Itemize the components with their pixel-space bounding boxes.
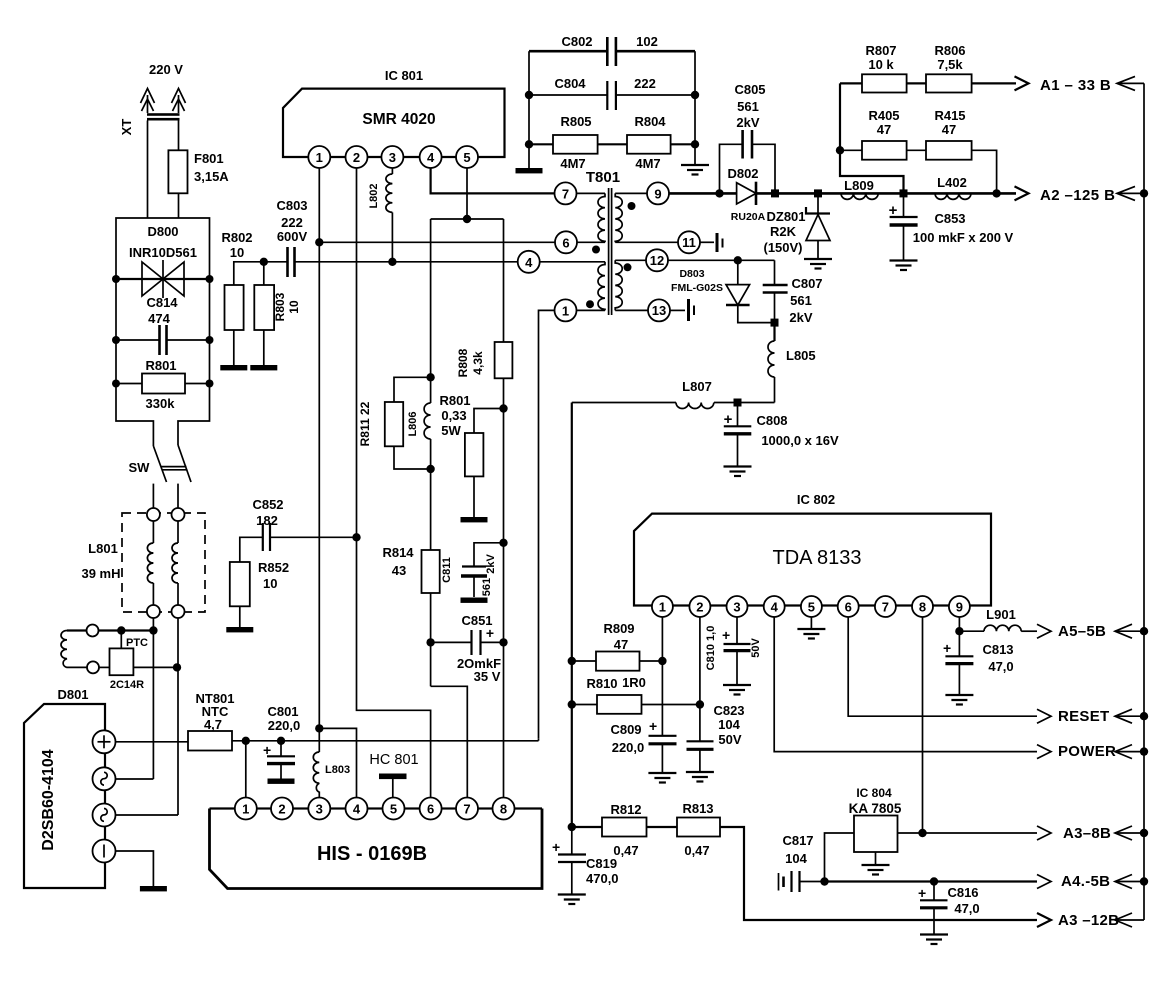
arrow output A4-5B [1037, 875, 1051, 889]
arrow return RESET [1115, 715, 1144, 717]
IC802 pin 2 [689, 596, 710, 617]
svg-text:C817: C817 [782, 833, 813, 848]
wire L801 left down [152, 618, 154, 631]
wire left mains down to D800 [147, 121, 149, 219]
svg-text:C809: C809 [610, 722, 641, 737]
wire snubber left leg [528, 51, 530, 168]
svg-text:R809: R809 [603, 621, 634, 636]
svg-text:7: 7 [882, 600, 889, 615]
svg-text:SW: SW [129, 460, 151, 475]
wire minus to ground [116, 851, 154, 886]
arrow return A1 [1117, 82, 1144, 84]
wire R813 to A3-12B [720, 827, 1037, 920]
svg-text:POWER: POWER [1058, 743, 1116, 760]
svg-text:47: 47 [614, 637, 628, 652]
posistor PTC 2C14R [120, 631, 122, 649]
arrow output A5-5B [1037, 624, 1051, 638]
svg-text:102: 102 [636, 34, 658, 49]
svg-text:L809: L809 [844, 178, 874, 193]
svg-text:+: + [552, 839, 560, 855]
T801 secondary lower winding [615, 259, 646, 261]
svg-text:C804: C804 [554, 76, 586, 91]
svg-text:8: 8 [919, 600, 926, 615]
svg-text:R2K: R2K [770, 224, 797, 239]
svg-text:182: 182 [256, 513, 278, 528]
T801 pin 1 [555, 299, 577, 321]
svg-text:SMR 4020: SMR 4020 [362, 111, 435, 128]
svg-text:R807: R807 [865, 43, 896, 58]
svg-text:C811: C811 [441, 557, 453, 583]
T801 pin 9 [647, 182, 669, 204]
svg-text:39 mH: 39 mH [81, 566, 120, 581]
L801 terminals [147, 508, 160, 521]
svg-text:600V: 600V [277, 229, 308, 244]
svg-text:2: 2 [696, 600, 703, 615]
wire IC801 pin1 down [318, 168, 320, 752]
svg-text:C814: C814 [146, 295, 178, 310]
svg-text:C801: C801 [267, 704, 298, 719]
arrow return A3-8B [1115, 832, 1144, 834]
svg-text:IC 802: IC 802 [797, 492, 835, 507]
resistor R852 10 [230, 562, 250, 606]
svg-text:C808: C808 [756, 413, 787, 428]
svg-text:10: 10 [230, 245, 244, 260]
wire IC802 pin9 down [958, 617, 960, 631]
IC802 pin 8 [912, 596, 933, 617]
svg-text:9: 9 [956, 600, 963, 615]
IC802 pin 9 [949, 596, 970, 617]
capacitor C811 561 2kV [474, 543, 504, 566]
svg-text:D800: D800 [147, 224, 178, 239]
svg-text:+: + [943, 640, 951, 656]
svg-text:3,15A: 3,15A [194, 169, 229, 184]
ground bridge minus [140, 886, 167, 891]
svg-text:10: 10 [287, 300, 301, 314]
svg-text:A4.-5B: A4.-5B [1061, 873, 1110, 890]
svg-text:1: 1 [242, 802, 249, 817]
svg-text:R814: R814 [382, 545, 414, 560]
svg-text:35 V: 35 V [474, 669, 501, 684]
svg-text:0,47: 0,47 [613, 843, 638, 858]
wire pin11 to ground [700, 241, 714, 243]
svg-text:DZ801: DZ801 [766, 209, 805, 224]
svg-text:4,7: 4,7 [204, 717, 222, 732]
wire degauss top [67, 629, 87, 631]
wire down to R814 [430, 469, 432, 550]
hybrid IC HIS-0169B body [210, 809, 543, 889]
svg-text:R802: R802 [221, 230, 252, 245]
svg-text:7,5k: 7,5k [937, 57, 963, 72]
svg-text:10 k: 10 k [868, 57, 894, 72]
ground R802 [220, 365, 247, 370]
svg-text:INR10D561: INR10D561 [129, 245, 197, 260]
svg-text:4M7: 4M7 [635, 156, 660, 171]
svg-text:7: 7 [463, 802, 470, 817]
capacitor C853 100mkFx200V [900, 189, 908, 197]
T801 primary lower winding [540, 261, 605, 263]
IC801 pin 4 [420, 146, 442, 168]
svg-text:4: 4 [353, 802, 361, 817]
svg-text:R803: R803 [273, 292, 287, 321]
svg-text:222: 222 [634, 76, 656, 91]
HIS pin 4 [346, 798, 368, 820]
D801 terminal ac2 [93, 804, 116, 827]
svg-text:C852: C852 [252, 497, 283, 512]
svg-text:50V: 50V [750, 638, 762, 658]
svg-text:104: 104 [785, 851, 807, 866]
svg-text:1000,0 x 16V: 1000,0 x 16V [761, 433, 839, 448]
IC802 pin 7 [875, 596, 896, 617]
svg-text:R801: R801 [145, 358, 176, 373]
svg-text:L402: L402 [937, 175, 967, 190]
svg-text:12: 12 [650, 253, 664, 268]
wire jog to HIS pin4 [319, 728, 356, 797]
svg-text:470,0: 470,0 [586, 871, 619, 886]
svg-text:6: 6 [845, 600, 852, 615]
svg-text:47: 47 [942, 122, 956, 137]
ground snubber left [516, 168, 543, 173]
svg-text:R405: R405 [868, 108, 899, 123]
svg-text:A2 –125 B: A2 –125 B [1040, 187, 1115, 204]
wire HIS pin1 drop [245, 741, 247, 797]
svg-text:2kV: 2kV [736, 115, 759, 130]
svg-text:330k: 330k [146, 396, 176, 411]
arrow return A3-12B [1115, 919, 1144, 921]
wire rail right leg down to R808 [503, 219, 505, 342]
wire PTC to right line [133, 666, 178, 668]
svg-text:L803: L803 [325, 764, 350, 776]
wire IC802 pin8 down [922, 617, 924, 833]
wire feedback bus right [1143, 83, 1145, 920]
svg-text:D801: D801 [57, 687, 88, 702]
svg-text:IC 804: IC 804 [856, 786, 892, 800]
svg-text:C816: C816 [947, 885, 978, 900]
svg-text:6: 6 [562, 235, 569, 250]
IC802 pin 1 [652, 596, 673, 617]
svg-text:2: 2 [353, 150, 360, 165]
svg-text:L801: L801 [88, 541, 118, 556]
varistor D800 symbol [116, 278, 210, 280]
svg-text:0,33: 0,33 [441, 408, 466, 423]
svg-text:561: 561 [481, 578, 493, 596]
svg-text:R813: R813 [682, 801, 713, 816]
svg-text:104: 104 [718, 717, 740, 732]
T801 pin 7 [555, 182, 577, 204]
wire L801 right down to bridge [177, 618, 179, 815]
wire IC801 pin4 to T801 pin7 [431, 168, 555, 193]
svg-text:1R0: 1R0 [622, 675, 646, 690]
svg-text:4: 4 [525, 255, 533, 270]
arrow return POWER [1115, 751, 1144, 753]
varistor block D800 outline [116, 218, 210, 446]
svg-text:C807: C807 [791, 276, 822, 291]
svg-text:A5–5B: A5–5B [1058, 623, 1106, 640]
svg-text:KA 7805: KA 7805 [849, 801, 902, 816]
svg-text:5: 5 [463, 150, 470, 165]
svg-text:HC 801: HC 801 [369, 752, 418, 768]
svg-text:(150V): (150V) [763, 240, 802, 255]
svg-text:FML-G02S: FML-G02S [671, 282, 723, 294]
wire A4 line [825, 880, 1038, 882]
svg-text:4,3k: 4,3k [471, 351, 485, 375]
svg-text:47,0: 47,0 [988, 659, 1013, 674]
svg-text:R810: R810 [586, 676, 617, 691]
D801 terminal minus [93, 840, 116, 863]
svg-text:474: 474 [148, 311, 170, 326]
L801 winding left [152, 521, 154, 543]
T801 phase dots [628, 202, 636, 210]
svg-text:4M7: 4M7 [560, 156, 585, 171]
wire main +B line [669, 192, 737, 195]
wire right mains down [178, 121, 180, 219]
svg-text:C853: C853 [934, 211, 965, 226]
svg-text:3: 3 [389, 150, 396, 165]
IC801 pin 5 [456, 146, 478, 168]
svg-text:F801: F801 [194, 151, 224, 166]
svg-text:R811 22: R811 22 [358, 401, 372, 446]
svg-text:D803: D803 [679, 268, 704, 280]
svg-text:220 V: 220 V [149, 62, 183, 77]
svg-text:RESET: RESET [1058, 708, 1110, 725]
svg-text:47,0: 47,0 [954, 901, 979, 916]
svg-text:L807: L807 [682, 379, 712, 394]
arrow return A4-5B [1115, 881, 1144, 883]
svg-text:6: 6 [427, 802, 434, 817]
arrow output A2 [1015, 186, 1029, 200]
svg-text:L806: L806 [407, 411, 419, 436]
svg-text:T801: T801 [586, 169, 620, 186]
svg-text:7: 7 [562, 186, 569, 201]
svg-text:3: 3 [733, 600, 740, 615]
filter L801 39mH dashed box [122, 513, 205, 612]
svg-text:R812: R812 [610, 802, 641, 817]
HIS pin 2 [271, 798, 293, 820]
svg-text:+: + [918, 885, 926, 901]
wire pin13 to ground [670, 309, 685, 311]
wire to HIS pin7 [431, 686, 468, 797]
svg-text:A1 – 33 B: A1 – 33 B [1040, 77, 1111, 94]
IC801 pin 3 [381, 146, 403, 168]
svg-text:C813: C813 [982, 642, 1013, 657]
svg-text:43: 43 [392, 563, 406, 578]
svg-text:2: 2 [278, 802, 285, 817]
svg-text:R806: R806 [934, 43, 965, 58]
T801 pin 6 [555, 231, 577, 253]
svg-text:C802: C802 [561, 34, 592, 49]
wire IC802 pin4 to POWER [774, 617, 1037, 752]
IC802 pin 6 [838, 596, 859, 617]
wire feedback left leg [840, 83, 904, 193]
arrow output A1 [1015, 76, 1029, 90]
HIS pin 3 [308, 798, 330, 820]
D801 terminal ac1 [93, 767, 116, 790]
resistor R811 22 and inductor L806 parallel [426, 373, 434, 381]
arrow output A3-8B [1037, 826, 1051, 840]
svg-text:50V: 50V [718, 732, 741, 747]
svg-text:5: 5 [808, 600, 815, 615]
svg-text:R852: R852 [258, 560, 289, 575]
svg-text:A3–8B: A3–8B [1063, 825, 1111, 842]
svg-text:5W: 5W [441, 423, 461, 438]
op-amp IC801 SMR 4020 body [283, 89, 505, 157]
svg-text:1: 1 [562, 303, 569, 318]
IC802 pin 5 [801, 596, 822, 617]
svg-text:1: 1 [316, 150, 323, 165]
svg-text:RU20A: RU20A [731, 211, 766, 223]
svg-text:L901: L901 [986, 607, 1016, 622]
wire IC804 output to A3-8B [898, 832, 1038, 834]
svg-text:4: 4 [427, 150, 435, 165]
svg-text:L802: L802 [368, 183, 380, 208]
T801 secondary upper winding [615, 192, 647, 194]
svg-text:4: 4 [771, 600, 779, 615]
degauss coil [61, 631, 67, 668]
svg-text:0,47: 0,47 [684, 843, 709, 858]
arrow output A3-12B [1037, 913, 1051, 927]
svg-text:R415: R415 [934, 108, 965, 123]
svg-text:IC 801: IC 801 [385, 68, 423, 83]
IC801 pin 2 [346, 146, 368, 168]
svg-text:R801: R801 [439, 393, 470, 408]
wire IC802 pin5 ground [810, 617, 812, 628]
svg-text:HIS - 0169B: HIS - 0169B [317, 843, 427, 865]
wire T801 pin12 net [668, 259, 775, 261]
arrow output RESET [1037, 709, 1051, 723]
svg-text:220,0: 220,0 [612, 740, 645, 755]
wire IC804 input left [825, 833, 855, 882]
fuse F801 3,15A [168, 150, 187, 193]
D801 terminal + [93, 730, 116, 753]
svg-text:2C14R: 2C14R [110, 679, 144, 691]
wire IC801 pin2 down jog to HIS pin6 [357, 168, 431, 797]
svg-text:D802: D802 [727, 166, 758, 181]
svg-text:13: 13 [652, 303, 666, 318]
connector XT double bar [147, 113, 180, 116]
HIS pin 8 [493, 798, 515, 820]
wire rail left leg down to R811 [430, 219, 432, 377]
svg-text:561: 561 [790, 293, 812, 308]
svg-text:TDA 8133: TDA 8133 [773, 547, 862, 569]
svg-text:+: + [722, 627, 730, 643]
resistor R803 10 [263, 262, 265, 285]
svg-text:C823: C823 [713, 703, 744, 718]
wire IC802 pin1 down [661, 617, 663, 736]
svg-text:5: 5 [390, 802, 397, 817]
svg-text:C819: C819 [586, 856, 617, 871]
wire pin1 to T801 pin6 [319, 241, 555, 243]
svg-text:D2SB60-4104: D2SB60-4104 [40, 749, 57, 851]
ground R815 [461, 517, 488, 522]
T801 pin 11 [678, 231, 700, 253]
wire snubber right leg [694, 51, 696, 164]
arrow return A2 [1117, 192, 1144, 194]
HIS pin 7 [456, 798, 478, 820]
HIS pin 1 [235, 798, 257, 820]
arrow return A5 [1115, 630, 1144, 632]
wire L807 bus down left [571, 403, 573, 828]
HIS pin 5 [383, 798, 405, 820]
IC802 pin 4 [764, 596, 785, 617]
svg-text:A3 –12B: A3 –12B [1058, 912, 1119, 929]
wire DC bus to C801 and T801 [232, 740, 539, 742]
svg-text:+: + [486, 625, 494, 641]
svg-text:+: + [649, 718, 657, 734]
svg-text:C810 1,0: C810 1,0 [705, 626, 717, 671]
wire mains left with arrow [141, 89, 155, 104]
wire left pole down to bridge [152, 631, 154, 780]
wire IC801 pin5 rail [466, 168, 468, 219]
svg-text:100 mkF x 200 V: 100 mkF x 200 V [913, 230, 1014, 245]
svg-text:8: 8 [500, 802, 507, 817]
T801 pin 13 [648, 299, 670, 321]
wire C801 bus corner [538, 738, 540, 741]
inductor L802 [391, 168, 393, 174]
wire mains right with arrow [172, 89, 186, 104]
svg-text:C803: C803 [276, 198, 307, 213]
svg-text:R804: R804 [634, 114, 666, 129]
wire plus to NT801 [116, 741, 189, 743]
svg-text:3: 3 [316, 802, 323, 817]
svg-text:R805: R805 [560, 114, 591, 129]
ground R803 [250, 365, 277, 370]
T801 pin 12 [646, 249, 668, 271]
svg-text:9: 9 [654, 186, 661, 201]
svg-text:47: 47 [877, 122, 891, 137]
regulator IC802 TDA 8133 body [634, 514, 991, 606]
svg-text:L805: L805 [786, 348, 816, 363]
svg-text:2kV: 2kV [789, 310, 812, 325]
svg-text:C805: C805 [734, 82, 765, 97]
IC802 pin 3 [727, 596, 748, 617]
svg-text:1: 1 [659, 600, 666, 615]
svg-text:220,0: 220,0 [268, 718, 301, 733]
svg-text:222: 222 [281, 215, 303, 230]
svg-text:PTC: PTC [126, 637, 148, 649]
ground snubber right [681, 165, 709, 175]
wire T801 pin1 bus down to C801 [539, 310, 555, 738]
ground pin13 [687, 299, 690, 321]
svg-text:561: 561 [737, 99, 759, 114]
svg-text:10: 10 [263, 576, 277, 591]
T801 pin 4 [518, 251, 540, 273]
T801 core [608, 188, 610, 315]
wire degauss bottom [67, 666, 87, 668]
arrow output POWER [1037, 745, 1051, 759]
svg-text:2kV: 2kV [485, 554, 497, 574]
HIS pin 6 [420, 798, 442, 820]
L801 winding right [177, 521, 179, 543]
IC801 pin 1 [308, 146, 330, 168]
ground R852 [226, 627, 253, 632]
wire IC802 pin6 to RESET [848, 617, 1037, 716]
svg-text:R808: R808 [456, 348, 470, 377]
ground pin11 [716, 233, 719, 252]
svg-text:11: 11 [682, 235, 696, 250]
svg-text:XT: XT [119, 119, 134, 136]
T801 primary upper winding [577, 192, 606, 194]
wire IC802 pin2 down [699, 617, 701, 741]
